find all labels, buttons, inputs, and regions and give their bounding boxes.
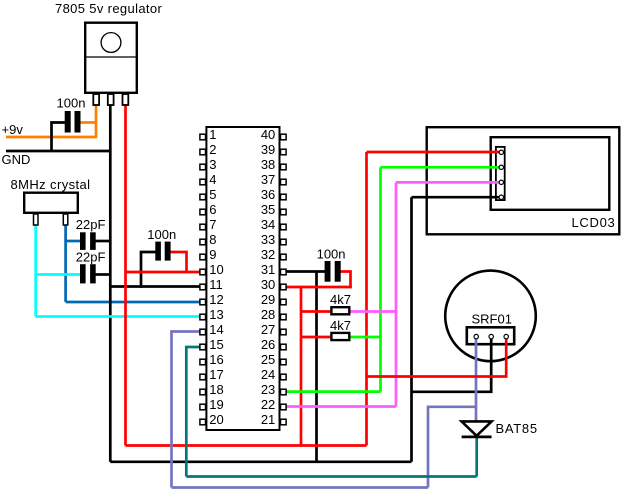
- wire GND bottom horizontal: [110, 460, 411, 463]
- IC U1 pin 33: [281, 239, 287, 245]
- IC U1 pin 24: [281, 374, 287, 380]
- wire green resistor R2 branch: [351, 336, 381, 339]
- svg-text:23: 23: [261, 382, 275, 397]
- wire red bottom horizontal: [126, 444, 367, 447]
- wire cyan crystal pin A vertical: [34, 226, 37, 317]
- wire black right vertical: [410, 197, 413, 462]
- wire red decoupling cap drop: [170, 252, 187, 273]
- IC U1 pin 10: [200, 269, 206, 275]
- svg-text:21: 21: [261, 412, 275, 427]
- svg-text:27: 27: [261, 322, 275, 337]
- IC U1 pin 22: [281, 404, 287, 410]
- svg-text:2: 2: [209, 142, 216, 157]
- capacitor 22pF upper right plate: [90, 232, 96, 250]
- wire purple IC pin 14 branch: [172, 332, 201, 488]
- svg-text:22pF: 22pF: [76, 249, 106, 264]
- wire red to IC pin 10: [126, 271, 201, 274]
- wire black input cap to GND: [52, 123, 66, 152]
- capacitor 100n decoupling left plate: [155, 242, 161, 261]
- svg-text:+9v: +9v: [2, 122, 24, 137]
- wire pink vertical: [395, 182, 398, 406]
- IC U1 pin 15: [200, 344, 206, 350]
- wire teal bottom horizontal: [186, 475, 476, 478]
- svg-text:10: 10: [209, 262, 223, 277]
- IC U1 pin 1: [200, 134, 206, 140]
- IC U1 pin 39: [281, 149, 287, 155]
- capacitor 100n decoupling right plate: [165, 242, 171, 261]
- IC U1 pin 38: [281, 164, 287, 170]
- crystal pin A: [34, 214, 39, 225]
- capacitor 100n input right plate: [75, 111, 81, 133]
- IC U1 pin 30: [281, 284, 287, 290]
- svg-text:37: 37: [261, 172, 275, 187]
- svg-text:24: 24: [261, 367, 275, 382]
- svg-text:BAT85: BAT85: [496, 421, 538, 436]
- LCD03 pin 4: [499, 195, 503, 199]
- svg-text:100n: 100n: [317, 246, 346, 261]
- regulator 7805 body: [85, 23, 137, 93]
- svg-text:18: 18: [209, 382, 223, 397]
- LCD03 pin 2: [499, 165, 503, 169]
- resistor 4k7 R2: [331, 333, 349, 340]
- wire black decoupling cap to pin 11 rail: [141, 252, 156, 288]
- wire black IC pin 31 to cap: [286, 270, 326, 273]
- IC U1 pin 25: [281, 359, 287, 365]
- svg-text:35: 35: [261, 202, 275, 217]
- svg-text:4k7: 4k7: [330, 292, 351, 307]
- wire teal IC pin 15 branch: [186, 347, 200, 477]
- svg-text:3: 3: [209, 157, 216, 172]
- svg-text:100n: 100n: [147, 227, 176, 242]
- wire purple SRF01 left pin to diode: [475, 338, 478, 421]
- wire red IC pin 30 supply: [286, 286, 352, 289]
- diode BAT85 cathode bar: [462, 435, 492, 438]
- svg-text:12: 12: [209, 292, 223, 307]
- svg-text:SRF01: SRF01: [472, 312, 512, 327]
- svg-text:30: 30: [261, 277, 275, 292]
- wire orange riser to regulator pin 1: [95, 105, 98, 138]
- SRF01 connector box: [467, 327, 514, 344]
- wire GND rail top: [6, 150, 110, 153]
- IC U1 pin 34: [281, 224, 287, 230]
- svg-text:4: 4: [209, 172, 216, 187]
- svg-text:34: 34: [261, 217, 275, 232]
- svg-text:29: 29: [261, 292, 275, 307]
- svg-text:13: 13: [209, 307, 223, 322]
- wire black GND to IC pin 11: [110, 285, 200, 288]
- wire red resistor feed vertical: [300, 286, 303, 446]
- svg-text:5: 5: [209, 187, 216, 202]
- svg-text:39: 39: [261, 142, 275, 157]
- crystal pin B: [63, 214, 68, 225]
- IC U1 pin 2: [200, 149, 206, 155]
- IC U1 pin 26: [281, 344, 287, 350]
- svg-text:28: 28: [261, 307, 275, 322]
- IC U1 pin 31: [281, 269, 287, 275]
- IC U1 pin 3: [200, 164, 206, 170]
- svg-text:31: 31: [261, 262, 275, 277]
- wire pink resistor R1 branch: [351, 310, 397, 313]
- wire red right vertical: [365, 152, 368, 446]
- capacitor 100n right left plate: [325, 261, 331, 282]
- wire black to LCD03 pin 4: [412, 196, 501, 199]
- svg-text:1: 1: [209, 127, 216, 142]
- wire red regulator output vertical: [124, 105, 127, 446]
- svg-text:25: 25: [261, 352, 275, 367]
- svg-text:20: 20: [209, 412, 223, 427]
- diode BAT85 triangle: [462, 421, 492, 435]
- IC U1 pin 37: [281, 179, 287, 185]
- svg-text:17: 17: [209, 367, 223, 382]
- IC U1 pin 35: [281, 209, 287, 215]
- svg-text:15: 15: [209, 337, 223, 352]
- IC U1 pin 7: [200, 224, 206, 230]
- crystal X1 body: [24, 193, 78, 213]
- wire red cap to pin 30: [340, 272, 351, 289]
- svg-text:7805 5v regulator: 7805 5v regulator: [55, 1, 162, 16]
- regulator 7805 tab line: [85, 56, 137, 58]
- wire orange input cap branch: [80, 121, 96, 124]
- IC U1 pin 9: [200, 254, 206, 260]
- svg-text:22pF: 22pF: [76, 217, 106, 232]
- wire orange +9v rail: [6, 136, 96, 139]
- IC U1 pin 4: [200, 179, 206, 185]
- svg-text:22: 22: [261, 397, 275, 412]
- LCD03 connector strip: [496, 147, 505, 200]
- regulator pin 3: [123, 94, 129, 105]
- IC U1 pin 32: [281, 254, 287, 260]
- svg-text:8: 8: [209, 232, 216, 247]
- LCD03 pin 1: [499, 150, 503, 154]
- wire cyan 22pF branch: [36, 273, 81, 276]
- capacitor 100n input left plate: [65, 111, 71, 133]
- wire green to LCD03 pin 2: [381, 166, 501, 169]
- SRF01 body circle: [445, 271, 536, 362]
- svg-text:14: 14: [209, 322, 223, 337]
- regulator pin 2: [108, 94, 114, 105]
- regulator 7805 mounting hole: [101, 33, 121, 53]
- wire green vertical: [379, 167, 382, 391]
- IC U1 pin 36: [281, 194, 287, 200]
- wire black 22pF lower to GND: [95, 273, 110, 276]
- svg-text:19: 19: [209, 397, 223, 412]
- IC U1 pin 29: [281, 299, 287, 305]
- IC U1 pin 19: [200, 404, 206, 410]
- wire blue to IC pin 12: [66, 301, 200, 304]
- svg-text:GND: GND: [2, 152, 31, 167]
- IC U1 pin 27: [281, 329, 287, 335]
- wire pink to LCD03 pin 3: [396, 181, 500, 184]
- wire red to resistor R2: [301, 336, 331, 339]
- IC U1 pin 17: [200, 374, 206, 380]
- wire teal diode cathode riser: [475, 438, 478, 477]
- wire blue crystal pin B vertical: [64, 226, 67, 303]
- wire pink to IC pin 22: [286, 405, 396, 408]
- IC U1 pin 18: [200, 389, 206, 395]
- IC U1 pin 14: [200, 329, 206, 335]
- svg-text:26: 26: [261, 337, 275, 352]
- IC U1 pin 11: [200, 284, 206, 290]
- wire red to LCD03 pin 1: [367, 151, 501, 154]
- svg-text:9: 9: [209, 247, 216, 262]
- IC U1 pin 21: [281, 419, 287, 425]
- wire black cap ground drop: [315, 272, 318, 462]
- svg-text:40: 40: [261, 127, 275, 142]
- SRF01 pin 1: [474, 334, 478, 338]
- IC U1 pin 40: [281, 134, 287, 140]
- LCD03 inner board: [491, 137, 610, 210]
- svg-text:LCD03: LCD03: [572, 215, 616, 230]
- wire GND vertical from regulator pin 2: [109, 105, 112, 462]
- IC U1 pin 13: [200, 314, 206, 320]
- capacitor 22pF lower right plate: [90, 264, 96, 283]
- IC U1 pin 12: [200, 299, 206, 305]
- svg-text:16: 16: [209, 352, 223, 367]
- IC U1 body (40-pin DIP): [206, 127, 279, 430]
- wire cyan to IC pin 13: [36, 315, 200, 318]
- svg-text:32: 32: [261, 247, 275, 262]
- IC U1 pin 28: [281, 314, 287, 320]
- svg-text:38: 38: [261, 157, 275, 172]
- capacitor 100n right right plate: [335, 261, 341, 282]
- IC U1 pin 5: [200, 194, 206, 200]
- capacitor 22pF lower left plate: [80, 264, 86, 283]
- resistor 4k7 R1: [331, 307, 349, 314]
- svg-text:36: 36: [261, 187, 275, 202]
- IC U1 pin 6: [200, 209, 206, 215]
- svg-text:7: 7: [209, 217, 216, 232]
- wire black to SRF01 middle pin: [412, 338, 492, 392]
- wire blue 22pF branch: [66, 240, 81, 243]
- IC U1 pin 20: [200, 419, 206, 425]
- IC U1 pin 23: [281, 389, 287, 395]
- svg-text:4k7: 4k7: [330, 318, 351, 333]
- IC U1 pin 16: [200, 359, 206, 365]
- wire purple right riser: [428, 407, 476, 488]
- wire purple bottom horizontal: [172, 486, 429, 489]
- SRF01 pin 3: [504, 334, 508, 338]
- wire red SRF01 branch: [367, 338, 507, 377]
- svg-text:11: 11: [209, 277, 223, 292]
- svg-text:6: 6: [209, 202, 216, 217]
- LCD03 outer box: [427, 127, 620, 234]
- wire black 22pF upper to GND: [95, 240, 110, 243]
- SRF01 pin 2: [489, 334, 493, 338]
- svg-text:100n: 100n: [57, 96, 86, 111]
- svg-text:8MHz crystal: 8MHz crystal: [11, 177, 91, 192]
- wire red to resistor R1: [301, 310, 331, 313]
- svg-text:33: 33: [261, 232, 275, 247]
- LCD03 pin 3: [499, 180, 503, 184]
- regulator pin 1: [93, 94, 99, 105]
- capacitor 22pF upper left plate: [80, 232, 86, 250]
- wire green to IC pin 23: [286, 390, 381, 393]
- IC U1 pin 8: [200, 239, 206, 245]
